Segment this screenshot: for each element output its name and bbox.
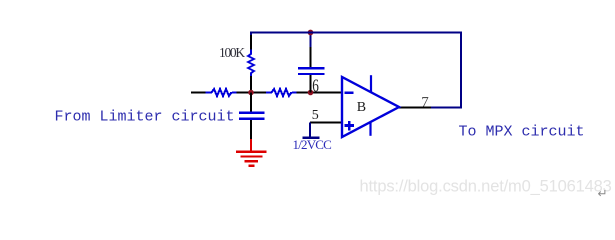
svg-text:https://blog.csdn.net/m0_51061: https://blog.csdn.net/m0_51061483 [360,178,612,196]
svg-text:5: 5 [312,108,319,123]
capacitor C2 bottom plate [239,117,265,119]
wire: R1 bottom to node A [250,76,252,93]
op-amp U1B triangle [342,77,399,137]
resistor R1 100K (feedback resistor, vertical) [248,50,254,77]
wire: node A down to capacitor C2 [250,93,252,112]
wire: op-amp output (pin 7) black segment [398,107,432,109]
wire: output to feedback corner (blue) [431,107,462,109]
wire: op-amp non-inverting input (pin 5) [310,122,343,124]
power terminal bar 1/2VCC [303,137,320,140]
wire: between R2 and node A [237,92,268,94]
wire: navy corner stub [250,32,252,36]
node C junction dot (on feedback wire) [308,30,314,36]
node B junction dot (pin 6 node) [308,90,314,96]
wire: node B to op-amp inverting input (pin 6) [297,92,343,94]
wire: navy stub from node C down [310,33,312,48]
svg-text:From Limiter circuit: From Limiter circuit [55,108,235,125]
svg-text:7: 7 [421,95,429,111]
wire: node B up to capacitor C1 [310,75,312,92]
svg-text:100K: 100K [219,45,245,60]
svg-text:B: B [357,100,366,115]
node A junction dot [248,90,254,96]
wire: red lead into ground [250,139,252,152]
svg-text:↵: ↵ [598,187,608,201]
svg-text:6: 6 [312,76,319,96]
op-amp minus sign (inverting input marker) [345,91,354,94]
op-amp plus sign (non-inverting input marker) [345,121,355,131]
capacitor C1 bottom plate [298,73,325,75]
op-amp negative supply pin [369,122,371,136]
wire: C2 bottom lead [250,120,252,140]
resistor R3 (input series resistor, right) [266,89,297,96]
wire: C1 top lead up to feedback wire [310,47,312,68]
wire: vertical from top-left corner to R1 [250,34,252,50]
wire: input rail from left [191,92,206,94]
ground symbol [236,152,267,166]
capacitor C1 top plate [298,67,325,69]
wire: pin 5 down to 1/2VCC terminal [309,123,311,138]
wire: feedback top rail and right vertical (blue) [250,33,461,108]
resistor R2 (input series resistor, left) [206,89,238,96]
svg-text:To MPX circuit: To MPX circuit [459,124,585,141]
op-amp positive supply pin [370,75,372,92]
capacitor C2 top plate [239,111,265,113]
svg-text:1/2VCC: 1/2VCC [293,137,332,152]
